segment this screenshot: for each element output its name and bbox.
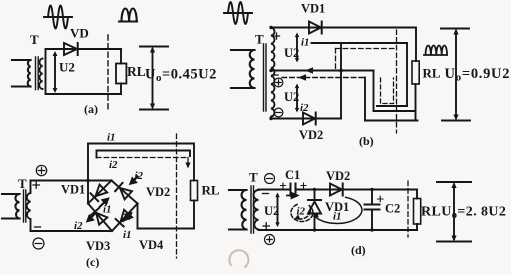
bridge edge top-right — [112, 181, 138, 204]
dashed separator (d) — [407, 181, 409, 237]
arrow i1 on center tap wire — [305, 67, 313, 73]
svg-text:i1: i1 — [301, 37, 310, 49]
junction dots (b) — [269, 26, 343, 120]
node circled plus (c) — [36, 165, 46, 175]
wire top (b) — [271, 28, 416, 62]
wire rail 2 (c) — [97, 151, 191, 158]
svg-text:(c): (c) — [86, 255, 99, 269]
arrow i2 top-right — [131, 177, 138, 184]
input sine waveform symbol — [44, 6, 72, 29]
svg-text:(d): (d) — [351, 243, 366, 257]
U2 lower measurement arrow — [295, 84, 299, 113]
node circled plus below (d) — [265, 235, 275, 245]
polarity + right of C1 — [301, 183, 306, 188]
transformer T primary winding — [12, 60, 31, 87]
diode VD3 (bridge) — [91, 208, 108, 225]
svg-text:VD1: VD1 — [301, 2, 325, 16]
dashed arrow loop i2 (d) — [291, 205, 313, 222]
transformer (c) secondary winding — [27, 181, 31, 231]
capacitor C1 — [291, 184, 296, 196]
diode VD2 (d) — [330, 184, 343, 196]
resistor RL (d) — [414, 190, 421, 231]
node - secondary bottom mark — [35, 226, 41, 228]
svg-text:Uo=0.45U2: Uo=0.45U2 — [145, 67, 217, 85]
svg-text:VD2: VD2 — [326, 169, 350, 183]
svg-text:(a): (a) — [84, 102, 98, 116]
node circled plus — [274, 78, 283, 87]
transformer (b) primary winding — [231, 50, 255, 88]
junction dots (d) — [313, 188, 374, 232]
wire VD2 riser — [340, 43, 342, 119]
node + top secondary terminal — [274, 33, 280, 39]
svg-text:i1: i1 — [333, 211, 342, 223]
svg-text:i2: i2 — [74, 220, 83, 232]
arrow on top wire (d) — [287, 193, 298, 198]
wire rails riser (c) — [87, 144, 89, 204]
svg-text:i2: i2 — [135, 170, 144, 182]
arrow i1 center — [100, 199, 108, 207]
dashed i2 loop left — [335, 49, 337, 70]
svg-text:VD2: VD2 — [299, 128, 323, 142]
U2 upper measurement arrow — [295, 33, 299, 63]
bridge edge top-left — [88, 181, 112, 204]
dashed separator (b) — [396, 30, 398, 133]
svg-text:C1: C1 — [285, 168, 300, 182]
solid arrow loop i1 (d) — [314, 197, 362, 223]
arrowhead i1 loop — [313, 213, 319, 218]
diode VD2 (bridge) — [115, 183, 132, 200]
arrow i1 bottom — [123, 213, 131, 221]
wire return bottom to load (b) — [374, 110, 416, 112]
svg-text:T: T — [30, 32, 39, 47]
transformer secondary winding — [39, 59, 42, 90]
wire secondary vertical — [45, 49, 47, 94]
svg-text:i1: i1 — [123, 229, 132, 241]
U2 measurement arrow — [53, 51, 58, 93]
arrowhead i2 loop — [294, 215, 300, 220]
wire top middle (d) — [296, 189, 418, 191]
dashed separator line (a) — [107, 35, 109, 112]
svg-text:VD: VD — [70, 26, 89, 41]
node circled minus — [274, 108, 283, 117]
svg-text:RL: RL — [423, 66, 441, 81]
Uo measurement (a) — [140, 47, 168, 110]
node circled minus (c) — [33, 238, 44, 249]
svg-text:(b): (b) — [359, 134, 374, 148]
Uo measurement (b) — [441, 29, 470, 121]
svg-text:VD4: VD4 — [139, 238, 164, 252]
svg-text:RL: RL — [202, 183, 220, 198]
resistor RL (b) — [412, 61, 419, 121]
polarity + of C2 — [378, 196, 384, 202]
svg-text:Uo=0.9U2: Uo=0.9U2 — [445, 66, 511, 84]
svg-text:C2: C2 — [385, 202, 400, 216]
polarity + left of C1 — [281, 183, 286, 188]
junction dot (c) — [86, 179, 89, 182]
transformer (c) primary winding — [2, 194, 20, 219]
smudge artifact circle — [229, 250, 248, 267]
wire plus return riser — [364, 78, 366, 121]
svg-text:U2: U2 — [284, 90, 299, 104]
svg-text:U2: U2 — [264, 204, 279, 218]
svg-text:i2: i2 — [109, 159, 118, 171]
wire center tap (b) — [271, 70, 374, 72]
dashed i2 inner U — [381, 78, 394, 104]
diode VD4 (bridge) — [116, 210, 133, 227]
svg-text:T: T — [249, 170, 258, 185]
svg-text:U2: U2 — [59, 60, 75, 75]
capacitor C2 — [365, 190, 380, 231]
diode VD1 (bridge) — [91, 185, 108, 202]
wire bottom secondary (b) — [271, 118, 341, 120]
svg-text:T: T — [255, 32, 264, 47]
transformer (d) core — [251, 186, 254, 233]
svg-text:i2: i2 — [300, 102, 309, 114]
transformer core — [36, 57, 39, 90]
half-wave output waveform symbol — [119, 8, 137, 21]
transformer (c) core — [24, 190, 26, 222]
input sine waveform symbol (b) — [224, 2, 252, 24]
wire bridge right vertex down (c) — [137, 204, 139, 229]
diode VD — [64, 43, 78, 55]
node - center tap mark — [272, 74, 278, 76]
resistor RL (c) — [191, 181, 198, 229]
Uo measurement (d) — [437, 182, 471, 242]
svg-text:T: T — [18, 176, 27, 191]
wire rail i1 (c) — [88, 144, 194, 181]
U2 measurement arrow (d) — [275, 193, 279, 228]
svg-text:U2: U2 — [284, 46, 299, 60]
svg-text:i1: i1 — [107, 132, 116, 144]
transformer (d) secondary winding — [254, 190, 259, 230]
svg-text:RL: RL — [127, 64, 146, 79]
wire bottom (c) — [31, 230, 113, 232]
full-wave output waveform symbol — [424, 45, 447, 55]
transformer (b) secondary winding with center tap — [271, 28, 274, 117]
bridge edge bottom-left — [88, 204, 112, 232]
wire bottom right (c) — [138, 228, 195, 230]
resistor RL (a) — [116, 49, 126, 94]
svg-text:i1: i1 — [103, 204, 112, 216]
dashed rail i2 (c) — [97, 158, 189, 165]
svg-text:RLUo=2. 8U2: RLUo=2. 8U2 — [421, 205, 506, 222]
bridge edge bottom-right — [112, 204, 138, 232]
node - mark (d) — [263, 193, 269, 195]
dashed separator (c) — [176, 134, 178, 258]
svg-text:VD2: VD2 — [146, 185, 170, 199]
arrow i2 rail end — [185, 163, 190, 169]
node + mark (d) — [263, 223, 269, 229]
wire bottom (d) — [259, 229, 418, 231]
transformer (d) primary winding — [229, 190, 247, 230]
wire plus-terminal return (b) — [282, 77, 365, 79]
dashed i2 loop top — [336, 48, 397, 50]
wire i1 loop right — [406, 43, 408, 106]
transformer (b) core — [264, 44, 267, 111]
wire i1 loop bottom stub — [377, 105, 407, 107]
svg-text:VD1: VD1 — [61, 183, 85, 197]
wire bottom outer (b) — [365, 120, 418, 122]
diode VD1 — [309, 22, 322, 34]
wire top left (d) — [259, 189, 291, 191]
svg-text:i2: i2 — [297, 206, 306, 218]
node + secondary top mark — [33, 182, 39, 188]
svg-text:VD3: VD3 — [86, 239, 110, 253]
wire bottom (a) — [46, 93, 122, 95]
node circled minus (d) — [265, 174, 275, 184]
diode VD2 — [303, 113, 316, 125]
diode VD1 shunt (d) — [308, 190, 321, 231]
wire top (c) — [31, 180, 112, 182]
wire return riser (b) — [373, 71, 375, 112]
arrow i2 on return wire — [298, 74, 306, 80]
wire top (a) — [46, 48, 122, 50]
arrow i2 bottom-left — [88, 214, 95, 221]
wire i1 loop top — [312, 42, 408, 44]
